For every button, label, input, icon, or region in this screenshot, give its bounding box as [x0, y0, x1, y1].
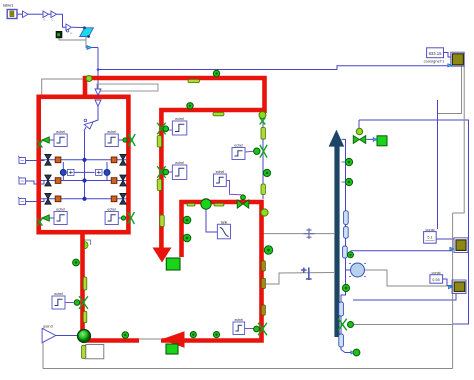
pipe capsule x262 olive b [261, 278, 265, 288]
svg-text:f1...: f1... [43, 18, 48, 22]
cross sensor y233 [304, 228, 315, 239]
echel block BR [105, 208, 118, 225]
sensor ball top junction [86, 76, 92, 82]
echel block M3 [214, 170, 227, 187]
valve V5 on riser [157, 123, 168, 135]
pipe capsule riser a [157, 136, 161, 148]
wire row1 to pumpdot R [106, 162, 108, 170]
echel block M4 [232, 144, 245, 160]
expansion tank [86, 345, 104, 359]
valve V8 ball [254, 148, 260, 154]
wire block L to column [75, 171, 85, 173]
wire right y65 to x452 [453, 66, 465, 213]
valve ball B2 [254, 326, 260, 332]
pipe capsule x262 olive c [261, 305, 265, 315]
sensor ball x181 a [183, 216, 191, 224]
wire gray box corner [42, 79, 85, 95]
converter block C2 (olive) [450, 238, 468, 253]
wire gain1 to firstOrder1 [28, 13, 43, 15]
wire gain3 to pump1 [56, 335, 78, 337]
pump dot left [60, 169, 66, 175]
wire sensor to conv1 [351, 250, 453, 252]
heater block (green) [373, 136, 387, 146]
wire sensor to tank block [206, 209, 217, 232]
node row3 [82, 197, 86, 201]
pipe capsule x82 b [83, 311, 87, 323]
pipe capsule right b [344, 227, 349, 239]
valve ball B1 [74, 300, 80, 306]
svg-text:echel: echel [216, 170, 225, 174]
resistor row1 left [55, 157, 61, 163]
wire angle arrow to column [84, 127, 86, 131]
svg-text:tank: tank [221, 220, 228, 224]
wire sensor stub [84, 240, 91, 245]
pipe capsule right a [344, 211, 349, 225]
wire gain2 to pump block P1 [72, 26, 85, 28]
pipe bottom thin link [138, 338, 162, 340]
consigneT1 label [424, 59, 445, 64]
resistor row1 right [111, 157, 117, 163]
resistor row3 left [55, 196, 61, 202]
const2 block [430, 275, 443, 284]
flow direction arrow (navy) [329, 130, 345, 337]
sensor ball y340 b [213, 332, 219, 338]
cross sensor y273 [301, 268, 312, 281]
pipe capsule right e [339, 334, 344, 347]
const label 2 [431, 271, 441, 275]
EET75 setpoint block [427, 48, 444, 58]
svg-text:table1: table1 [3, 4, 13, 8]
echel block B1 [52, 292, 65, 309]
valve small x262 [260, 118, 266, 125]
node row2 [82, 178, 86, 182]
wire sensor T2 to box row2 [26, 181, 45, 185]
echel block M1 [172, 117, 186, 135]
wire echel TL to valve [50, 139, 55, 141]
pipe capsule x262 olive a [261, 261, 265, 271]
wire valve3 to block [367, 138, 374, 140]
const label 1 [425, 228, 435, 232]
wire firstOrder2 down to gain2 [57, 14, 67, 27]
valve row1 right [120, 154, 127, 165]
resistor row2 left [55, 178, 61, 184]
sensor ball x262 low [261, 209, 268, 216]
wire echel M1 to valve V5 [166, 129, 172, 131]
svg-text:echel: echel [234, 144, 243, 148]
pipe main loop top (red) [85, 78, 265, 113]
wire echel TR to valve [118, 139, 123, 141]
pipe bottom left (red) [85, 338, 139, 343]
wire const2 to conv2 [443, 279, 452, 286]
pipe capsule x82 a [83, 277, 87, 290]
sensor ball corner262 [259, 112, 266, 119]
wire cone to angle arrow [93, 106, 99, 122]
resistor row3 right [111, 196, 117, 202]
wire pump2 to conv2 [365, 270, 453, 286]
pipe capsule riser c [160, 215, 164, 227]
mini block right [96, 169, 103, 175]
svg-text:pi: pi [70, 31, 73, 35]
wire EET75 to converter [444, 53, 451, 58]
valve V11 [353, 136, 366, 144]
valve V12 [338, 319, 353, 331]
wire long setpoint bus y69 [98, 66, 449, 70]
svg-text:echel: echel [107, 208, 116, 212]
valve TL (teardrop) [37, 137, 49, 148]
tank capsule [82, 345, 86, 358]
temp sensor T3 [18, 197, 26, 205]
valve row2 left [45, 175, 52, 186]
pipe capsule y78 [188, 79, 200, 82]
sensor ball below pump [342, 284, 349, 291]
wire table1 to gain1 [17, 13, 23, 15]
wire gray rectangle y84-91 [97, 84, 158, 91]
gain3 label [43, 324, 54, 329]
wire pumpdot L to row2 [62, 176, 64, 181]
pipe capsule x262 a [261, 127, 265, 139]
valve V6 on riser [157, 166, 168, 178]
wire echel M3 to valve V7 [226, 181, 241, 195]
valve row3 right [120, 193, 127, 204]
pipe capsule x262 b [261, 184, 265, 195]
firstOrder U2 [43, 11, 49, 22]
svg-text:833.15: 833.15 [429, 51, 442, 56]
valve V9 on x262 [258, 323, 267, 335]
cone symbol 1 [95, 89, 101, 95]
wire gray x451 down [452, 213, 454, 369]
sensor ball x181 b [183, 234, 191, 242]
svg-text:echel: echel [175, 161, 184, 165]
table1 label [3, 4, 13, 8]
wire heatport y273 [266, 273, 334, 285]
cone symbol 2 [95, 100, 101, 106]
pipe capsule y110 a [213, 112, 224, 115]
flow arrow down [153, 248, 172, 263]
table block table1 [7, 10, 17, 19]
valve row1 left [45, 154, 52, 165]
wire pipe to pump2 [346, 269, 351, 271]
wire node down to input arrow [86, 37, 87, 48]
pipe segment x262 thin [262, 113, 264, 199]
wire const1 to conv1 [436, 238, 454, 240]
valve row2 right [120, 175, 127, 186]
node row1 [82, 158, 86, 162]
valve V7 on y202 [237, 195, 249, 208]
wire gray y325 [353, 324, 453, 326]
angle arrow [84, 119, 93, 129]
pipe loop lower (red) [161, 202, 262, 341]
svg-text:echel: echel [56, 130, 65, 134]
gain U4 [66, 24, 73, 35]
wire gray bottom bus [43, 368, 453, 370]
source S1 (dark block) [56, 32, 62, 38]
svg-text:echel: echel [56, 208, 65, 212]
pipe capsule y202 a [187, 203, 195, 206]
const1 block [424, 232, 437, 244]
sensor ball pipe b [342, 178, 353, 185]
wire right pipe column [341, 139, 352, 352]
wire gray right x461 [438, 66, 462, 114]
sensor ball pump top [348, 252, 354, 258]
wire echel M4 to valve V8 [245, 150, 254, 153]
pipe capsule y202 b [214, 203, 224, 206]
svg-text:consigneT1: consigneT1 [424, 59, 445, 64]
sensor ball pipe a [342, 158, 353, 165]
mini block left [68, 169, 75, 175]
echel block M2 [172, 161, 186, 180]
sensor ball y74 [213, 70, 219, 76]
pipe return riser (red) [80, 231, 85, 342]
gain U1 [23, 11, 29, 18]
pump block P1 (cyan) [80, 26, 94, 37]
svg-text:5.1: 5.1 [427, 236, 432, 240]
wire box row1 [40, 159, 127, 161]
temp sensor T1 [18, 156, 26, 164]
wire gain3 feedback [42, 343, 44, 369]
pump1 (green circle) [78, 330, 91, 343]
pump dot right [104, 169, 110, 175]
sensor ball y110 [187, 103, 193, 109]
svg-text:gain3: gain3 [43, 324, 54, 329]
sensor ball big y202 [201, 199, 211, 209]
wire echel B2 to valve [245, 328, 254, 330]
svg-text:echel: echel [175, 117, 184, 121]
volume block V1 (green) [166, 258, 180, 270]
valve V11 ball [356, 128, 362, 134]
sensor ball x262 y250 [264, 246, 272, 254]
svg-text:f2...: f2... [51, 18, 56, 22]
pipe capsule right c [343, 246, 348, 258]
pipe loop mid (red) [161, 110, 264, 250]
svg-text:echel: echel [107, 130, 116, 134]
sensor ball x82 [73, 259, 80, 266]
wire right x437 [437, 100, 439, 229]
svg-text:echel: echel [54, 292, 63, 296]
subsystem boundary box (red) [39, 97, 129, 232]
pipe capsule riser b [157, 179, 161, 191]
svg-text:0.55: 0.55 [432, 278, 439, 282]
sensor ball x262 mid [263, 169, 270, 176]
pump3 small [351, 349, 360, 356]
wire valve stub down [358, 120, 360, 129]
wire echel BR to valve [118, 217, 121, 219]
flow arrow left [161, 331, 185, 347]
wire pumpdot R to row2 [106, 176, 108, 181]
wire right loop [359, 120, 469, 324]
sensor ball y335 [122, 332, 129, 339]
echel block TL [54, 130, 67, 147]
valve V8 on x262 [260, 145, 267, 158]
pump2 (blue circle) [349, 263, 366, 277]
valve row3 left [45, 193, 52, 204]
wire block R to column [85, 171, 95, 173]
wire sensor T1 to box row1 [26, 159, 45, 162]
wire echel BL to valve [50, 217, 55, 219]
sensor ball y340 a [190, 332, 196, 338]
wire box row3 [40, 198, 127, 200]
svg-text:echel: echel [235, 318, 244, 322]
wire source S1 to node [59, 38, 86, 40]
volume block V2 (green) [166, 344, 178, 354]
valve V10 on x82 [79, 296, 88, 309]
wire sensor T3 to box row3 [26, 199, 45, 202]
echel block TR [105, 130, 118, 147]
wire echel B1 to valve [65, 302, 74, 304]
temp sensor T2 [18, 176, 26, 184]
input connector arrow [87, 46, 92, 50]
node junction x98-y69 [97, 68, 100, 71]
converter block C3 (olive) [448, 280, 466, 294]
echel block BL [54, 208, 67, 225]
converter block C1 (olive) [448, 52, 464, 67]
gain3 block [42, 328, 56, 342]
wire heatport y233 [263, 233, 334, 235]
firstOrder U3 [51, 11, 57, 22]
valve TR [123, 134, 135, 146]
wire row1 to pumpdot L [62, 162, 64, 170]
wire conv2 down-left [353, 294, 456, 301]
sensor half ball [84, 242, 88, 249]
valve BR [121, 212, 134, 224]
wire firstOrder1 to firstOrder2 [49, 13, 52, 15]
tank block [217, 220, 230, 238]
pipe capsule right d [339, 302, 344, 316]
wire vertical bus x98 [97, 48, 99, 93]
wire input arrow to long bus [92, 47, 98, 49]
wire box center column [84, 131, 86, 199]
resistor row2 right [111, 178, 117, 184]
wire echel M2 to valve V6 [166, 171, 172, 173]
wire box row2 [40, 180, 127, 182]
echel block B2 [233, 318, 245, 335]
valve BL (teardrop) [37, 215, 49, 226]
